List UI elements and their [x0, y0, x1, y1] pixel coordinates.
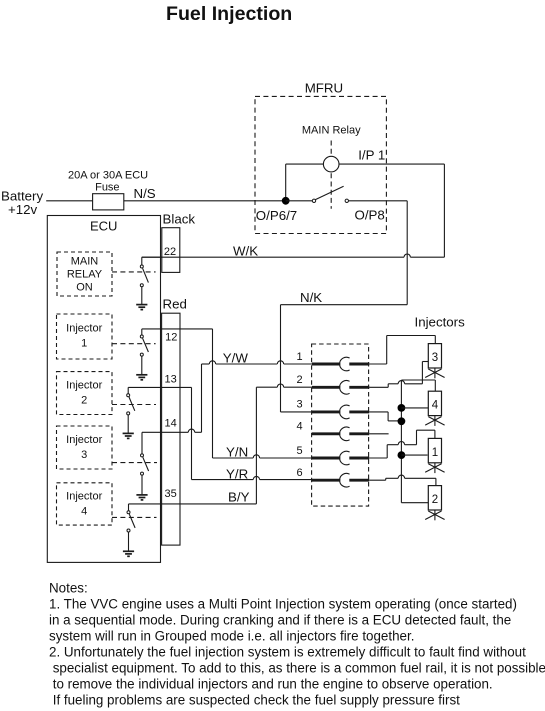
label Injectors	[415, 315, 466, 330]
wire Y/R to injector pin 6	[192, 476, 313, 479]
injector connector contact row 1	[297, 351, 370, 371]
wire pin35 B/Y	[129, 503, 257, 505]
wire common bottom to injector 2 left	[401, 502, 428, 504]
transistor switch Q4 (pin 35)	[123, 504, 135, 556]
label Y/W	[223, 351, 249, 366]
node junction row3	[398, 417, 406, 425]
relay switch contacts	[286, 186, 349, 202]
svg-text:B/Y: B/Y	[228, 489, 250, 504]
svg-text:MAIN: MAIN	[71, 256, 99, 268]
svg-text:MAIN Relay: MAIN Relay	[302, 125, 361, 137]
wire row6 to injector 2 top	[369, 475, 436, 486]
svg-text:13: 13	[165, 373, 177, 385]
svg-text:If fueling problems are suspec: If fueling problems are suspected check …	[49, 693, 460, 708]
node junction battery/coil/switch	[282, 197, 290, 205]
svg-text:Injector: Injector	[66, 434, 102, 446]
wire O/P8 right	[349, 200, 408, 202]
wire B/Y to injector pin 2	[256, 384, 312, 387]
svg-text:Fuse: Fuse	[95, 182, 119, 194]
wire pin22 into ECU	[142, 256, 162, 258]
transistor switch Q1 (pin 12)	[136, 329, 148, 380]
wire junction up to coil	[285, 164, 287, 201]
label I/P 1	[358, 148, 385, 163]
svg-text:in a sequential mode. During c: in a sequential mode. During cranking an…	[49, 613, 511, 628]
svg-text:ON: ON	[76, 282, 93, 294]
svg-text:Black: Black	[163, 212, 196, 227]
svg-text:ECU: ECU	[90, 219, 117, 234]
MAIN Relay label	[302, 125, 361, 137]
Injector 2 box	[57, 372, 113, 415]
wire row3 to common	[369, 412, 401, 421]
wire pin13	[128, 386, 191, 388]
label Y/N	[226, 444, 248, 459]
svg-text:O/P8: O/P8	[355, 208, 385, 223]
svg-text:1. The VVC engine uses a Multi: 1. The VVC engine uses a Multi Point Inj…	[49, 597, 517, 612]
wire common top to injector 4 top	[401, 380, 435, 391]
svg-text:1: 1	[432, 447, 438, 459]
wire to injector 1 left	[401, 454, 427, 456]
wire I/P1 down to W/K	[443, 164, 445, 257]
svg-text:12: 12	[165, 332, 177, 344]
wire fuse to MFRU junction	[124, 200, 286, 202]
dashed link injector 4	[112, 516, 157, 518]
svg-text:Fuel Injection: Fuel Injection	[166, 3, 292, 25]
wire row4 stub	[369, 433, 388, 435]
label O/P8	[355, 208, 385, 223]
svg-text:2. Unfortunately the fuel inje: 2. Unfortunately the fuel injection syst…	[49, 645, 526, 660]
injector connector box	[312, 344, 369, 506]
svg-text:1: 1	[81, 338, 87, 350]
wire Y/N to injector pin 5	[213, 455, 313, 458]
wire common vertical	[400, 380, 402, 503]
wire row1 to injector 3 top	[369, 336, 435, 365]
svg-text:system will run in Grouped mod: system will run in Grouped mode i.e. all…	[49, 629, 414, 644]
connector Black	[162, 212, 196, 273]
svg-text:RELAY: RELAY	[67, 269, 103, 281]
svg-text:Y/N: Y/N	[226, 444, 248, 459]
svg-text:4: 4	[297, 421, 303, 433]
injector 3 spray nozzle	[425, 368, 444, 378]
svg-text:specialist equipment. To add t: specialist equipment. To add to this, as…	[49, 661, 545, 676]
wire to injector 4 left	[401, 407, 428, 409]
injector 4	[428, 391, 441, 415]
wire coil left	[286, 163, 324, 165]
svg-text:Y/W: Y/W	[223, 351, 249, 366]
svg-text:1: 1	[297, 351, 303, 363]
label N/S	[134, 186, 156, 201]
injector 1 spray nozzle	[425, 463, 444, 473]
svg-text:3: 3	[297, 399, 303, 411]
label N/K	[300, 290, 322, 305]
wire pin14	[142, 429, 202, 432]
label W/K	[233, 243, 258, 258]
wire row2 to injector 3 left	[369, 362, 428, 388]
relay coil K1	[323, 156, 339, 172]
svg-text:I/P 1: I/P 1	[358, 148, 385, 163]
transistor switch Q-main (pin 22)	[136, 257, 148, 309]
injector connector contact row 2	[297, 374, 370, 394]
svg-text:Red: Red	[163, 297, 187, 312]
transistor switch Q2 (pin 13)	[123, 387, 135, 438]
wire N/K horizontal	[281, 304, 408, 306]
svg-text:Injectors: Injectors	[415, 315, 466, 330]
svg-text:W/K: W/K	[233, 243, 258, 258]
injector 2	[428, 486, 441, 510]
injector connector contact row 4	[297, 421, 370, 441]
dashed link injector 1	[112, 343, 156, 345]
wire B/Y up	[255, 387, 257, 504]
wire Y/W to injector pin 1	[202, 361, 313, 364]
injector connector contact row 3	[297, 399, 370, 419]
Injector 3 box	[57, 426, 113, 469]
svg-text:O/P6/7: O/P6/7	[256, 208, 297, 223]
svg-text:20A or 30A ECU: 20A or 30A ECU	[68, 170, 148, 182]
title	[166, 3, 292, 25]
svg-text:3: 3	[432, 352, 438, 364]
svg-text:Y/R: Y/R	[226, 466, 248, 481]
svg-text:35: 35	[165, 488, 177, 500]
wire row5 to injector 1 top	[369, 430, 435, 458]
svg-text:5: 5	[297, 445, 303, 457]
svg-text:2: 2	[432, 494, 438, 506]
svg-text:14: 14	[165, 418, 177, 430]
injector 2 spray nozzle	[425, 510, 444, 520]
node junction to injector 4	[398, 404, 406, 412]
svg-text:+12v: +12v	[8, 202, 38, 217]
svg-text:2: 2	[81, 395, 87, 407]
svg-text:22: 22	[164, 246, 176, 258]
injector 4 spray nozzle	[425, 416, 444, 426]
injector connector contact row 6	[297, 467, 370, 487]
MFRU box	[255, 81, 386, 234]
dashed link main relay	[112, 271, 156, 273]
svg-text:N/S: N/S	[134, 186, 156, 201]
label Y/R	[226, 466, 248, 481]
notes text	[49, 581, 545, 708]
Injector 1 box	[57, 314, 113, 359]
Injector 4 box	[57, 483, 113, 525]
label O/P6/7	[256, 208, 297, 223]
wire O/P8 down to N/K	[406, 201, 408, 305]
svg-text:N/K: N/K	[300, 290, 322, 305]
svg-text:Notes:: Notes:	[49, 581, 88, 596]
svg-text:to remove the individual injec: to remove the individual injectors and r…	[49, 677, 493, 692]
wire pin12	[142, 328, 213, 330]
wire W/K pin22 to I/P1	[142, 254, 445, 257]
svg-text:4: 4	[432, 400, 439, 412]
svg-text:MFRU: MFRU	[305, 81, 343, 96]
dashed link injector 2	[112, 404, 156, 406]
battery label	[1, 189, 43, 218]
injector connector contact row 5	[297, 445, 370, 465]
wire coil to I/P 1	[339, 163, 444, 165]
transistor switch Q3 (pin 14)	[136, 432, 148, 500]
svg-text:6: 6	[297, 467, 303, 479]
label B/Y	[228, 489, 250, 504]
svg-text:Injector: Injector	[66, 323, 102, 335]
node junction to injector 1	[398, 451, 406, 459]
svg-text:3: 3	[81, 449, 87, 461]
wire N/K to injector pin 3	[281, 411, 313, 413]
wire pin12 down (Y/N feed)	[212, 329, 214, 458]
ECU box	[47, 216, 160, 563]
svg-text:Injector: Injector	[66, 380, 102, 392]
wire battery to fuse	[46, 200, 92, 202]
svg-text:2: 2	[297, 374, 303, 386]
connector Red	[162, 297, 187, 546]
svg-text:Injector: Injector	[66, 491, 102, 503]
injector 3	[428, 344, 441, 368]
fuse F1 20A/30A	[68, 170, 148, 210]
dashed link injector 3	[112, 462, 157, 464]
wire N/K down to pin3	[280, 305, 282, 412]
injector 1	[428, 438, 441, 462]
wire Y/W down to pin14	[201, 364, 203, 432]
svg-text:4: 4	[81, 506, 87, 518]
relay actuator dashed link	[330, 141, 332, 209]
wire pin13 down (Y/R feed)	[191, 387, 193, 479]
MAIN RELAY ON box	[57, 252, 112, 296]
